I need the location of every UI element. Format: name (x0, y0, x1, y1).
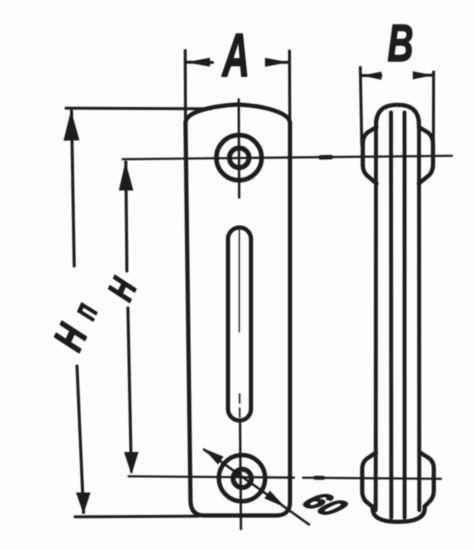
bottom hub outer circle (219, 455, 265, 501)
dim A right extension line (288, 51, 291, 123)
bottom hub horizontal centerline (129, 476, 295, 477)
side view column line 3 (403, 113, 407, 518)
side view top bulge right (419, 127, 433, 184)
dim Hp up arrow (64, 111, 80, 141)
dim H up arrow (119, 162, 134, 191)
label Hp (44, 316, 96, 357)
dim A left extension line (184, 51, 187, 123)
svg-text:A: A (221, 21, 250, 90)
front view vertical centerline in slot (238, 230, 240, 332)
dim B right arrow (415, 74, 433, 77)
top hub horizontal centerline (123, 156, 453, 159)
dim B left arrow (361, 74, 381, 77)
dim H vertical line (126, 162, 127, 271)
dim Hp down arrow (76, 493, 91, 515)
dim Hp vertical line (72, 111, 75, 266)
top hub inner circle (229, 148, 249, 168)
side view column line 4 (417, 121, 421, 510)
side view column line 2 (389, 113, 393, 518)
front view vertical centerline top segment (237, 100, 240, 198)
leader 60 upper arrow (204, 449, 224, 465)
dim A right arrow (267, 61, 289, 64)
bottom hub inner circle (233, 469, 251, 487)
dim B left extension line (360, 68, 362, 146)
slot (228, 228, 251, 421)
label Hp subscript p (64, 297, 104, 325)
dim Hp top extension line (66, 107, 211, 111)
dim A left arrow (186, 61, 213, 64)
label H (100, 271, 145, 306)
front view vertical centerline bottom segment (240, 421, 241, 530)
side view bottom bulge right (419, 452, 434, 507)
top hub outer circle (216, 135, 261, 180)
front view vertical centerline dashes below slot (239, 394, 241, 420)
dim H down arrow (124, 452, 139, 475)
bottom centerline dash blob (316, 476, 324, 480)
ink smudge inside bottom hub (235, 471, 241, 477)
dim B right extension line (432, 72, 435, 140)
leader line 60 (204, 450, 309, 525)
leader 60 lower arrow (264, 491, 285, 508)
front view outline (186, 105, 291, 516)
svg-text:B: B (388, 16, 414, 73)
side view dome top (376, 105, 419, 125)
side view column line 1 (374, 121, 378, 510)
side view bottom cap (373, 507, 425, 522)
label 60 (291, 489, 359, 521)
top centerline dash blob (321, 155, 332, 160)
dim Hp bottom extension line (75, 515, 198, 518)
side view top bulge left (363, 127, 377, 184)
side view bottom bulge left (362, 453, 376, 508)
